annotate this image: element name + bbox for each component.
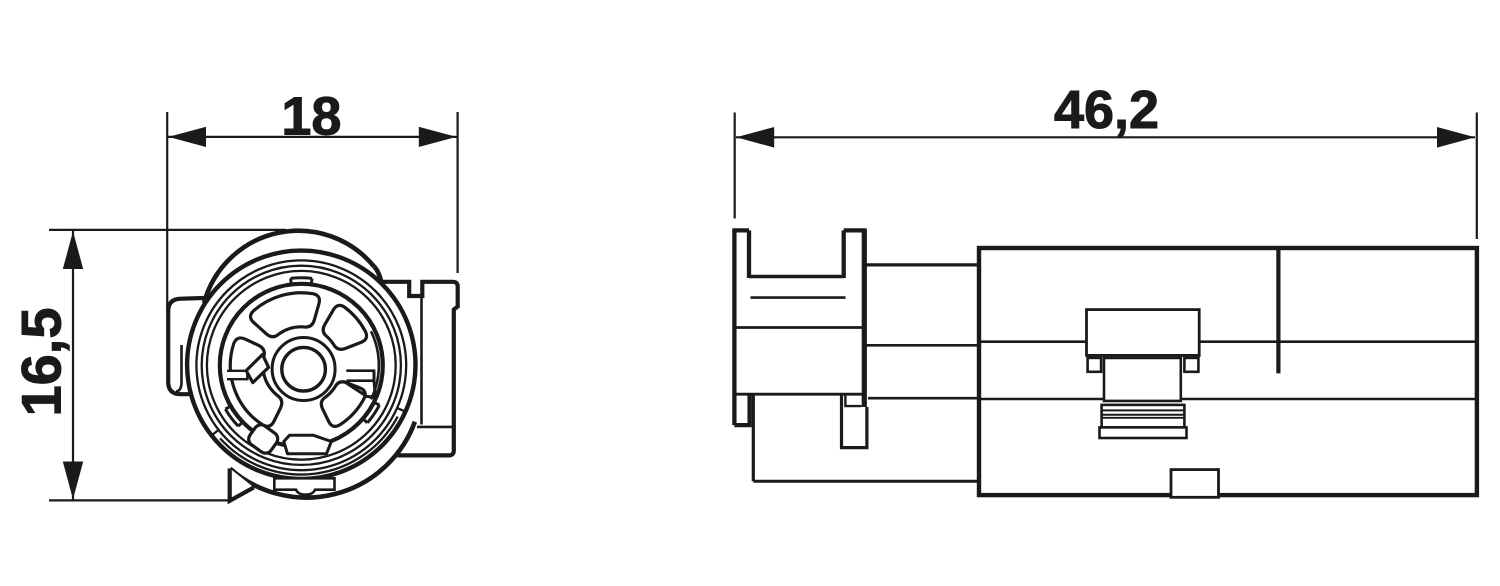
hanging tab inner step: [845, 395, 861, 407]
body upper line: [979, 340, 1477, 343]
gland line 1: [1102, 409, 1185, 411]
mid-section middle line: [865, 344, 979, 347]
housing face circle K: [187, 251, 415, 479]
mid-section top line: [865, 263, 979, 266]
cable gland block: [1102, 405, 1185, 428]
left tab inner vertical line: [176, 345, 182, 392]
rim inner arc near right key: [371, 331, 379, 399]
body divider line: [1276, 248, 1280, 373]
bottom beak tab: [230, 468, 254, 500]
hub inner circle: [282, 347, 326, 391]
dimension 46,2 : dimension line: [736, 136, 1475, 138]
gland line 3: [1102, 417, 1185, 419]
body lower line: [979, 398, 1477, 401]
bottom hex notch in rim: [284, 435, 332, 454]
latch big rect: [1087, 310, 1200, 356]
latch inner vertical line: [420, 297, 423, 424]
dimension 18 : right arrowhead: [419, 127, 457, 147]
bracket mid line: [734, 326, 863, 329]
keyway cutout bottom-right: [321, 382, 365, 427]
bracket U bar top: [749, 275, 844, 278]
rim bump lower right: [364, 403, 379, 423]
dimension 46,2 : left arrowhead: [736, 127, 774, 148]
bracket left outer edge: [732, 230, 736, 425]
left mounting tab (rounded rect, behind housing): [168, 298, 206, 394]
right key bar: [346, 371, 374, 381]
bracket right prong inner edge: [842, 230, 846, 278]
latch left foot: [1088, 358, 1102, 372]
dimension 16,5 : bottom arrowhead: [63, 462, 83, 500]
hood to latch connector curve: [374, 267, 381, 282]
dimension 46,2 : left extension line: [734, 113, 736, 219]
bracket right prong top: [844, 228, 866, 232]
keyway cutout top-right: [323, 305, 366, 349]
gland line 2: [1102, 414, 1185, 416]
latch inner horizontal line: [417, 426, 454, 429]
bracket bottom-left tab: [734, 394, 749, 425]
tilted square key on rim (lower left): [246, 422, 281, 456]
bracket right outer edge: [862, 229, 867, 408]
bottom collar with tongue: [274, 478, 334, 494]
thin circle 3: [207, 271, 396, 460]
dimension 18 : left extension line: [166, 112, 168, 311]
bracket lower line: [734, 393, 863, 396]
gland flange: [1100, 427, 1187, 438]
bracket hanging tab right: [842, 395, 867, 448]
dimension 46,2 : right extension line: [1476, 113, 1478, 240]
dimension 16,5 : dimension line: [72, 231, 74, 500]
latch right foot: [1184, 358, 1198, 372]
groove tick left: [213, 430, 218, 434]
rotor rim circle: [220, 284, 383, 447]
right latch box: [380, 282, 458, 456]
top hood arc: [204, 231, 374, 303]
main body outline: [979, 248, 1477, 495]
groove tick right: [398, 408, 404, 411]
lower shell left edge: [752, 394, 755, 481]
bracket left prong top: [732, 228, 749, 232]
bracket U bar bottom: [751, 296, 846, 299]
svg-text:16,5: 16,5: [10, 308, 73, 417]
dimension 16,5 : bottom extension line: [49, 499, 231, 501]
groove arc: [220, 417, 398, 475]
keyway cutout left: [230, 338, 282, 426]
left key wedge: [246, 355, 268, 383]
left key bar: [227, 371, 247, 379]
keyway cutout top: [250, 293, 319, 337]
thin circle 2: [202, 266, 401, 465]
thin circle 1: [196, 260, 406, 470]
rear housing arc K2 (bottom bulge): [230, 422, 415, 498]
dimension 18 : right extension line: [457, 112, 459, 273]
dimension 18 : left arrowhead: [168, 127, 206, 147]
svg-text:18: 18: [281, 86, 341, 146]
hub outer circle: [272, 338, 335, 401]
svg-text:46,2: 46,2: [1054, 80, 1159, 140]
bracket left prong inner edge: [747, 230, 751, 278]
right key lower edge: [344, 371, 376, 398]
dimension 16,5 : top arrowhead: [63, 231, 83, 269]
rim bump top: [291, 278, 312, 283]
rim bump lower left: [225, 407, 241, 426]
latch tongue: [1104, 358, 1181, 401]
mid-section lower line: [868, 397, 979, 400]
bottom small box: [1171, 470, 1219, 498]
dimension 46,2 : right arrowhead: [1437, 127, 1475, 148]
lower shell bottom line: [753, 480, 979, 483]
dimension 16,5 : top extension line: [49, 229, 286, 231]
dimension 18 : dimension line: [168, 136, 457, 138]
